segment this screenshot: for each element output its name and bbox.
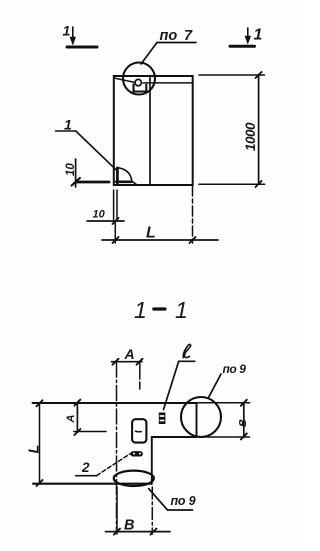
detail oval по 9 bottom bbox=[114, 471, 154, 486]
dimension 10 horizontal bbox=[87, 209, 124, 225]
corner angle item 1 bbox=[116, 168, 137, 186]
dimension L left bbox=[27, 400, 43, 486]
extension line right bottom (dashed) bbox=[192, 186, 194, 243]
leader item 2 bbox=[76, 454, 131, 476]
dimension 1000 bbox=[199, 72, 265, 187]
callout по 9 bottom bbox=[149, 489, 196, 510]
svg-text:1: 1 bbox=[254, 27, 263, 44]
dimension 10 vertical bbox=[65, 159, 80, 187]
embed plate item 2 bbox=[159, 413, 166, 425]
svg-text:1: 1 bbox=[175, 297, 188, 323]
svg-text:А: А bbox=[124, 346, 135, 362]
leader item 2 top bbox=[164, 344, 195, 409]
leader item 1 bbox=[56, 117, 116, 170]
svg-text:2: 2 bbox=[81, 460, 90, 475]
axis centerline bbox=[116, 362, 118, 530]
weld mark item 2 bbox=[130, 451, 143, 456]
dimension в right bbox=[197, 400, 250, 440]
callout по 7 bbox=[141, 28, 196, 64]
svg-text:1: 1 bbox=[64, 117, 72, 133]
svg-text:1: 1 bbox=[63, 23, 71, 39]
svg-text:В: В bbox=[124, 518, 134, 534]
section outline bbox=[33, 403, 197, 484]
svg-text:10: 10 bbox=[93, 209, 106, 221]
svg-text:А: А bbox=[65, 415, 77, 424]
dimension A left internal bbox=[65, 400, 106, 435]
slot hole mark bbox=[136, 430, 142, 432]
section mark 1 right bbox=[230, 27, 263, 47]
slot hole bbox=[132, 419, 146, 442]
section mark 1 left bbox=[63, 23, 98, 48]
detail circle по 7 bbox=[123, 63, 155, 95]
svg-text:L: L bbox=[27, 445, 43, 454]
dimension B bottom bbox=[106, 487, 171, 535]
panel top flange line bbox=[114, 78, 193, 83]
svg-text:1: 1 bbox=[134, 297, 147, 323]
panel joint line bbox=[149, 77, 151, 185]
svg-text:по7: по7 bbox=[160, 28, 194, 44]
svg-text:по 9: по 9 bbox=[171, 494, 196, 508]
detail circle по 9 right bbox=[181, 397, 221, 437]
extension line left bottom corner bbox=[113, 190, 115, 221]
svg-text:в: в bbox=[234, 419, 249, 427]
panel outline bbox=[114, 76, 193, 185]
section title 1 - 1 bbox=[134, 297, 188, 323]
svg-text:по 9: по 9 bbox=[223, 362, 247, 376]
svg-text:1000: 1000 bbox=[243, 122, 258, 151]
dimension A top bbox=[112, 346, 143, 392]
svg-text:L: L bbox=[146, 225, 156, 242]
dimension L bbox=[102, 225, 218, 244]
callout по 9 right bbox=[209, 362, 247, 397]
lifting loop detail bbox=[134, 79, 147, 91]
angle flange bar bbox=[77, 181, 110, 184]
